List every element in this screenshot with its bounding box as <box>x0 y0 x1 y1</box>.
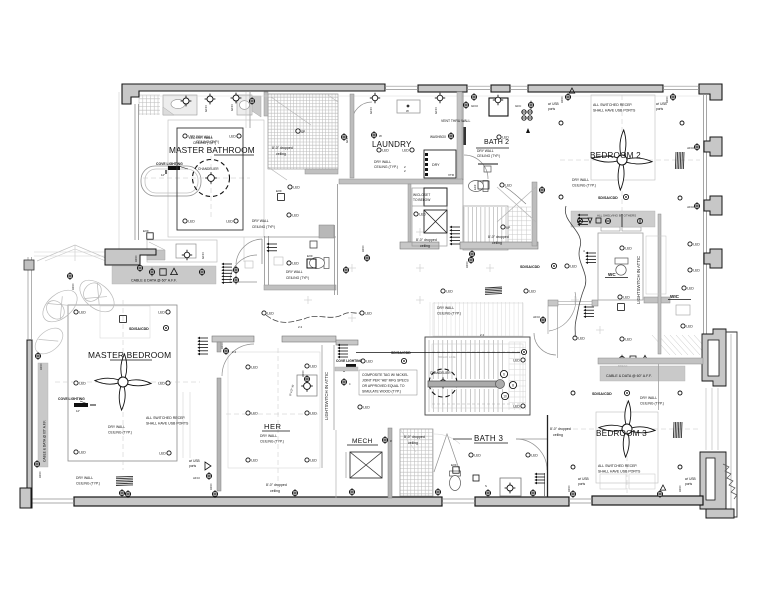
svg-text:WASHBOX: WASHBOX <box>430 135 447 139</box>
exterior wall bottom segment C <box>592 496 703 505</box>
hall wall stubs y300 <box>548 300 558 306</box>
room outline master bathroom ceiling <box>168 120 264 237</box>
leds master bedroom <box>74 310 78 314</box>
leds hall <box>441 289 445 293</box>
cove light symbol master bath <box>168 166 180 170</box>
laundry-bath2 divider wall <box>457 92 462 180</box>
svg-text:CABLE & DATA @ 60" A.F.F.: CABLE & DATA @ 60" A.F.F. <box>131 279 177 283</box>
gfci bath2 left <box>463 102 468 107</box>
svg-text:CEILING (TYP.): CEILING (TYP.) <box>76 482 100 486</box>
svg-text:AFCI: AFCI <box>465 261 469 268</box>
svg-text:CEILING (TYP.): CEILING (TYP.) <box>374 165 398 169</box>
svg-text:DRY WALL: DRY WALL <box>260 434 277 438</box>
svg-text:AFCI: AFCI <box>71 283 75 290</box>
door arc HER <box>222 344 254 376</box>
svg-text:w/ USB: w/ USB <box>685 477 696 481</box>
svg-text:LED: LED <box>402 149 409 153</box>
chaise lounge furniture sketch 2 <box>74 274 120 318</box>
svg-text:COVE LIGHTING: COVE LIGHTING <box>336 359 362 363</box>
svg-text:SD/SA/CDD: SD/SA/CDD <box>592 392 612 396</box>
cable-data band master bedroom <box>112 266 216 284</box>
wall stub below shower <box>305 169 338 174</box>
svg-text:LED: LED <box>251 366 258 370</box>
svg-text:SD/SA/CDD: SD/SA/CDD <box>391 351 411 355</box>
zigzag screen right <box>723 464 737 499</box>
vanity divider line master bath <box>249 92 251 128</box>
svg-text:LED: LED <box>686 325 693 329</box>
svg-text:ceiling: ceiling <box>270 489 280 493</box>
ceiling fan bedroom3 <box>631 425 656 435</box>
door fold bath3 left <box>434 434 460 472</box>
svg-text:6: 6 <box>503 372 505 376</box>
svg-text:8'-0" dropped: 8'-0" dropped <box>550 427 571 431</box>
svg-text:w/ USB: w/ USB <box>578 477 589 481</box>
svg-text:LED: LED <box>570 265 577 269</box>
centerline dashed master bedroom <box>55 381 200 383</box>
stair upper left wall <box>462 92 464 180</box>
corridor wall y336 <box>212 336 254 342</box>
switch cluster bedroom2 closet left <box>580 214 588 216</box>
gfci symbols master bath vanity <box>207 96 213 102</box>
cable-data band left vertical <box>38 363 48 467</box>
svg-text:AFCI: AFCI <box>38 471 42 478</box>
dryer box laundry <box>424 150 456 178</box>
dropped ceiling tile grid beside stairs <box>508 207 531 249</box>
svg-text:COVE LIGHTING: COVE LIGHTING <box>156 162 183 166</box>
svg-text:DRY WALL: DRY WALL <box>108 425 125 429</box>
svg-text:LED: LED <box>365 312 372 316</box>
afci bedroom2 left <box>565 94 570 99</box>
svg-text:LED: LED <box>310 412 317 416</box>
svg-text:LAUNDRY: LAUNDRY <box>372 140 412 149</box>
svg-text:HER: HER <box>264 422 282 431</box>
svg-text:OR APPROVED EQUAL TO: OR APPROVED EQUAL TO <box>362 384 405 388</box>
svg-text:8'-0" dropped: 8'-0" dropped <box>488 235 509 239</box>
svg-text:GFCI: GFCI <box>369 107 373 114</box>
right wall pilaster 3 <box>704 249 722 268</box>
svg-text:BREAK: BREAK <box>618 364 628 368</box>
svg-text:SHALL HAVE USB PORTS: SHALL HAVE USB PORTS <box>593 109 636 113</box>
powder room walls <box>264 236 266 287</box>
svg-text:SP: SP <box>301 130 305 134</box>
svg-text:w/ USB: w/ USB <box>656 102 667 106</box>
HER room ceiling outline <box>228 352 320 468</box>
svg-text:LED: LED <box>226 220 233 224</box>
svg-text:AFCI: AFCI <box>301 370 305 377</box>
svg-text:EXF: EXF <box>143 229 149 233</box>
afci hall symbols <box>468 257 473 262</box>
left wall pier block <box>24 260 34 270</box>
leds laundry <box>377 148 381 152</box>
svg-text:WC: WC <box>608 272 616 277</box>
HER right wall lines <box>321 345 323 468</box>
sp sprinkler master bath <box>296 129 300 133</box>
window lines between bays <box>705 388 707 450</box>
svg-text:SD/SA/CDD: SD/SA/CDD <box>598 196 618 200</box>
stair railing bar <box>428 381 500 387</box>
svg-text:LED: LED <box>310 459 317 463</box>
svg-text:ceiling: ceiling <box>492 241 502 245</box>
switch cluster WC 4-AFCI <box>588 252 596 254</box>
svg-text:8'-0" dropped: 8'-0" dropped <box>266 483 287 487</box>
svg-text:EXF: EXF <box>276 189 282 193</box>
exterior wall bottom segment A <box>74 497 442 506</box>
bath2 vanity counter <box>478 163 498 165</box>
squiggle bath2 to stairs <box>505 187 526 204</box>
svg-text:LED: LED <box>267 312 274 316</box>
window lines bottom wall gaps <box>31 498 74 500</box>
svg-text:AFCI: AFCI <box>567 485 571 492</box>
svg-text:CEILING (TYP.): CEILING (TYP.) <box>193 141 216 145</box>
exterior grade line upper-left <box>118 92 120 250</box>
cable squiggle corridor <box>266 313 360 323</box>
svg-text:AFCI: AFCI <box>678 485 682 492</box>
svg-text:LED: LED <box>188 220 195 224</box>
svg-text:DRY: DRY <box>432 163 440 167</box>
led right wall 2 <box>688 268 692 272</box>
door arc bath3 right <box>516 439 547 470</box>
powder vanity <box>245 261 253 268</box>
svg-text:CEILING (TYP.): CEILING (TYP.) <box>572 184 596 188</box>
svg-text:LED: LED <box>474 454 481 458</box>
svg-text:LED: LED <box>623 296 630 300</box>
svg-text:CEILING (TYP.): CEILING (TYP.) <box>260 440 284 444</box>
striped vent master bedroom <box>116 476 133 485</box>
svg-text:8'-0" dropped: 8'-0" dropped <box>272 146 293 150</box>
vanity counter right <box>237 95 252 115</box>
svg-text:GFCI: GFCI <box>471 104 478 108</box>
led right wall 1 <box>688 242 692 246</box>
svg-text:GFCI: GFCI <box>434 107 438 114</box>
EXF fan master bath <box>278 194 285 201</box>
svg-text:LED: LED <box>578 337 585 341</box>
right exterior wall lines <box>703 94 705 334</box>
MECH equipment crossed box <box>350 452 382 478</box>
svg-text:DRY WALL: DRY WALL <box>437 306 454 310</box>
bathtub master bath <box>141 166 201 196</box>
svg-text:LED: LED <box>505 184 512 188</box>
afci corridor symbols <box>304 376 309 381</box>
switch cluster master bedroom entry <box>200 337 208 339</box>
svg-text:CEILING (TYP.): CEILING (TYP.) <box>252 225 275 229</box>
svg-text:BREAK LINE: BREAK LINE <box>438 355 456 359</box>
svg-text:2 2: 2 2 <box>232 350 237 354</box>
svg-text:GFC: GFC <box>515 104 522 108</box>
led toilet room <box>287 261 291 265</box>
master bedroom ceiling outline <box>68 305 177 461</box>
svg-text:CEILING (TYP.): CEILING (TYP.) <box>477 154 500 158</box>
leds bath3 <box>469 453 473 457</box>
stair riser numbers <box>500 370 507 377</box>
closet shelving lines master bedroom <box>182 392 184 458</box>
centerline dashed bedroom3 <box>565 428 700 430</box>
afci master bedroom right <box>206 473 211 478</box>
led beside cove lighting HER <box>361 359 365 363</box>
svg-text:COVE LIGHTING: COVE LIGHTING <box>58 397 85 401</box>
svg-text:AFCI: AFCI <box>687 146 694 150</box>
svg-text:w/ USB: w/ USB <box>189 459 200 463</box>
chaise lounge furniture sketch 3 <box>30 323 67 359</box>
wall laundry-bath2 lower lines <box>462 180 464 242</box>
chandelier master bath <box>193 160 230 197</box>
svg-text:GFCI: GFCI <box>230 104 234 111</box>
led right wall 3 <box>682 286 686 290</box>
lower vanity master bath <box>147 240 217 262</box>
svg-text:BEDROOM 2: BEDROOM 2 <box>590 151 641 160</box>
afci right wall 1 <box>694 144 699 149</box>
svg-text:ALL SWITCHED RECEP.: ALL SWITCHED RECEP. <box>593 103 632 107</box>
afci bedroom2 right <box>670 94 675 99</box>
led closet hall <box>414 212 418 216</box>
ceiling fan master bedroom <box>127 378 152 388</box>
right bay fireplace upper <box>702 329 726 386</box>
afci bedroom3 bottom symbols <box>570 491 575 496</box>
cove light symbol HER hall <box>346 364 356 368</box>
svg-text:ALL SWITCHED RECEP.: ALL SWITCHED RECEP. <box>598 464 637 468</box>
chandelier centerline dashes <box>143 177 250 179</box>
sink pedestal bath3 <box>500 478 521 496</box>
svg-text:DRY WALL: DRY WALL <box>286 270 303 274</box>
svg-text:JOINT PER "HB" MFG SPECS: JOINT PER "HB" MFG SPECS <box>362 379 409 383</box>
door arc laundry <box>352 102 372 122</box>
svg-text:LIGHTSWITCH IN ATTIC: LIGHTSWITCH IN ATTIC <box>636 256 641 304</box>
svg-text:ALL SHELVING BY OTHERS: ALL SHELVING BY OTHERS <box>597 214 636 218</box>
svg-text:MASTER BEDROOM: MASTER BEDROOM <box>88 350 171 360</box>
leds master bath shower <box>288 185 292 189</box>
svg-text:MASTER BATHROOM: MASTER BATHROOM <box>169 145 255 155</box>
stair right wall upper <box>532 182 537 246</box>
svg-text:10: 10 <box>503 394 507 398</box>
svg-text:LED: LED <box>293 186 300 190</box>
svg-text:2 2: 2 2 <box>480 333 485 337</box>
striped vent bedroom3 <box>673 422 682 438</box>
svg-text:GFCI: GFCI <box>201 252 205 259</box>
left exterior wall lower <box>27 340 32 508</box>
svg-text:EXF: EXF <box>451 463 457 467</box>
svg-text:ceiling: ceiling <box>408 441 418 445</box>
gfci laundry wall <box>372 95 378 101</box>
toilet WC mid-right <box>615 258 628 264</box>
EXF fan bath3 <box>453 467 459 473</box>
svg-text:SD/SA/CDD: SD/SA/CDD <box>520 265 540 269</box>
svg-text:CHANDELIER: CHANDELIER <box>430 371 451 375</box>
interior face line below top wall <box>140 95 700 97</box>
wall stub under cove HER <box>335 367 358 371</box>
svg-text:LED: LED <box>363 406 370 410</box>
receptacles bedroom2 <box>559 121 563 125</box>
svg-text:ports: ports <box>685 482 692 486</box>
svg-text:DRY WALL: DRY WALL <box>640 396 657 400</box>
svg-text:CHANDELIER: CHANDELIER <box>198 167 219 171</box>
svg-text:LED: LED <box>513 359 520 363</box>
svg-text:ALL SWITCHED RECEP.: ALL SWITCHED RECEP. <box>146 416 185 420</box>
svg-text:LED: LED <box>693 243 700 247</box>
svg-text:LED: LED <box>310 365 317 369</box>
svg-text:VP: VP <box>506 226 510 230</box>
leds WC WIC <box>618 295 622 299</box>
afci below powder <box>364 255 369 260</box>
svg-text:LED: LED <box>513 405 520 409</box>
leds stairwell <box>521 358 525 362</box>
svg-text:BEDROOM 3: BEDROOM 3 <box>596 429 647 438</box>
svg-text:AFCI: AFCI <box>134 255 138 262</box>
cable-data band symbols master bedroom <box>149 269 154 274</box>
WIC closet outline <box>646 236 666 294</box>
bedroom3 ceiling outline <box>596 412 658 483</box>
svg-text:LED: LED <box>529 290 536 294</box>
striped vent bedroom2 <box>675 152 684 169</box>
svg-text:SHALL HAVE USB PORTS: SHALL HAVE USB PORTS <box>598 470 641 474</box>
exterior wall top segment D <box>528 85 663 92</box>
laundry-mbath divider wall <box>350 94 354 178</box>
svg-text:GFCI: GFCI <box>345 136 349 143</box>
leds HER <box>246 365 250 369</box>
exterior wall top segment A with step <box>122 84 385 104</box>
afci beside powder wall <box>343 267 348 272</box>
hall faint cross ticks <box>348 317 356 319</box>
exterior wall bottom segment B <box>475 497 569 506</box>
hall wall light lines <box>547 306 549 334</box>
EXF fan bath2 <box>478 181 489 189</box>
svg-text:LED: LED <box>382 149 389 153</box>
svg-text:DRY WALL: DRY WALL <box>477 149 494 153</box>
svg-text:LED: LED <box>292 262 299 266</box>
svg-text:TO BELOW: TO BELOW <box>413 198 431 202</box>
door arc hall to stairs <box>534 333 556 355</box>
svg-text:W: W <box>379 134 382 138</box>
svg-text:ceiling: ceiling <box>276 152 286 156</box>
ceiling fan bedroom2 <box>626 156 653 166</box>
svg-text:AFCI: AFCI <box>687 205 694 209</box>
svg-text:COMPOSITE TAG W/ NICKEL: COMPOSITE TAG W/ NICKEL <box>362 373 408 377</box>
bottom-right extension <box>706 509 734 518</box>
cove light symbol master bedroom <box>74 403 88 407</box>
switch cluster hall y307 <box>586 306 594 308</box>
chaise lounge furniture sketch 1 <box>37 284 83 328</box>
svg-text:12": 12" <box>161 173 165 177</box>
switch cluster hall below laundry <box>452 226 460 228</box>
svg-text:LED: LED <box>625 338 632 342</box>
fixture box HER closet <box>297 375 317 396</box>
svg-text:VENT THRU WALL: VENT THRU WALL <box>441 119 470 123</box>
shower left partition wall <box>264 92 268 116</box>
switch bank bath2 <box>522 110 526 114</box>
svg-text:SD/SA/CDD: SD/SA/CDD <box>129 327 149 331</box>
afci right wall 2 <box>694 203 699 208</box>
svg-text:CEILING (TYP.): CEILING (TYP.) <box>640 402 664 406</box>
striped vent hall <box>485 287 502 294</box>
MECH room walls <box>388 428 392 498</box>
door fold stair hall <box>497 187 536 222</box>
bath3-bedroom3 wall <box>547 415 549 497</box>
svg-text:ceiling: ceiling <box>420 244 430 248</box>
toilet bath2 <box>469 181 489 192</box>
vanity counter left <box>163 95 197 115</box>
stair dashed lines <box>432 351 523 353</box>
svg-text:LED: LED <box>229 135 236 139</box>
right bay lower <box>700 452 726 509</box>
exterior wall top segment B <box>418 85 467 92</box>
HER left wall <box>217 342 221 352</box>
WC room outline mid-right <box>598 233 643 300</box>
svg-text:LED DRY WALL: LED DRY WALL <box>189 136 213 140</box>
stairwell main treads <box>429 340 503 379</box>
bottom-left corner block <box>20 488 31 508</box>
svg-text:AFCI: AFCI <box>220 342 224 349</box>
svg-text:CEILING (TYP.): CEILING (TYP.) <box>108 431 132 435</box>
svg-text:CABLE & DATA @ 60" A.F.F.: CABLE & DATA @ 60" A.F.F. <box>43 420 47 462</box>
entry tile grid top-left <box>139 95 160 115</box>
svg-text:CABLE & DATA @ 60" A.F.F.: CABLE & DATA @ 60" A.F.F. <box>606 374 652 378</box>
svg-text:BATH 3: BATH 3 <box>474 434 503 443</box>
toilet bath3 <box>450 471 461 491</box>
svg-text:LED: LED <box>158 382 165 386</box>
led below composite note <box>358 405 362 409</box>
svg-text:W/CLOSET: W/CLOSET <box>413 193 430 197</box>
laundry sink box <box>397 100 420 113</box>
bottom wall symbol bath3 left <box>435 489 440 494</box>
svg-text:LED: LED <box>446 290 453 294</box>
svg-text:LED: LED <box>251 459 258 463</box>
svg-text:LED: LED <box>687 287 694 291</box>
svg-text:LED: LED <box>531 454 538 458</box>
svg-text:DRY WALL: DRY WALL <box>572 178 589 182</box>
svg-text:DRY WALL: DRY WALL <box>76 476 93 480</box>
exterior wall top segment C <box>491 85 510 92</box>
powder ceiling box <box>310 241 317 248</box>
svg-text:SHALL HAVE USB PORTS: SHALL HAVE USB PORTS <box>146 422 189 426</box>
led hall bedroom3 lobby <box>620 337 624 341</box>
svg-text:ports: ports <box>548 107 555 111</box>
right outer frame <box>708 332 737 517</box>
svg-text:AFCI: AFCI <box>193 476 200 480</box>
left wall window lines upper <box>27 257 29 340</box>
bottom wall symbol left <box>119 490 124 495</box>
svg-text:AFCI: AFCI <box>39 363 43 370</box>
right wall pilaster 2 <box>704 196 722 215</box>
svg-text:EXF: EXF <box>473 184 477 190</box>
attic access X-box <box>424 210 447 233</box>
svg-text:CEILING (TYP.): CEILING (TYP.) <box>437 312 461 316</box>
stair treads upper (to below) <box>464 207 506 249</box>
svg-text:LIGHTSWITCH IN ATTIC: LIGHTSWITCH IN ATTIC <box>324 372 329 420</box>
svg-text:AFCI: AFCI <box>209 483 213 490</box>
svg-text:GFCI: GFCI <box>204 105 208 112</box>
svg-text:DRY WALL: DRY WALL <box>252 219 269 223</box>
svg-text:CEILING (TYP.): CEILING (TYP.) <box>286 276 309 280</box>
bottom wall symbol hall <box>349 489 354 494</box>
EXF fan powder <box>307 259 316 268</box>
closet to below box <box>412 188 447 246</box>
led vp stairs <box>501 225 505 229</box>
shower tile grid master bath <box>268 94 338 169</box>
EXF fan master bath left <box>147 233 153 239</box>
vent bar bath2 wall <box>464 127 467 145</box>
svg-text:12": 12" <box>76 409 80 413</box>
centerline dashed HER <box>277 348 279 488</box>
svg-text:LED: LED <box>419 213 426 217</box>
arrow bath2 <box>526 128 530 133</box>
toilet powder room <box>310 258 330 269</box>
svg-text:LED: LED <box>158 311 165 315</box>
mid-left wall L connector <box>105 249 156 265</box>
svg-text:LED: LED <box>625 247 632 251</box>
svg-text:DRY WALL: DRY WALL <box>374 160 391 164</box>
afci bath3 bottom symbols <box>485 490 490 495</box>
chandelier stairwell <box>429 369 457 397</box>
cable squiggle bedroom2 to hall <box>565 206 585 337</box>
svg-text:LED: LED <box>79 311 86 315</box>
